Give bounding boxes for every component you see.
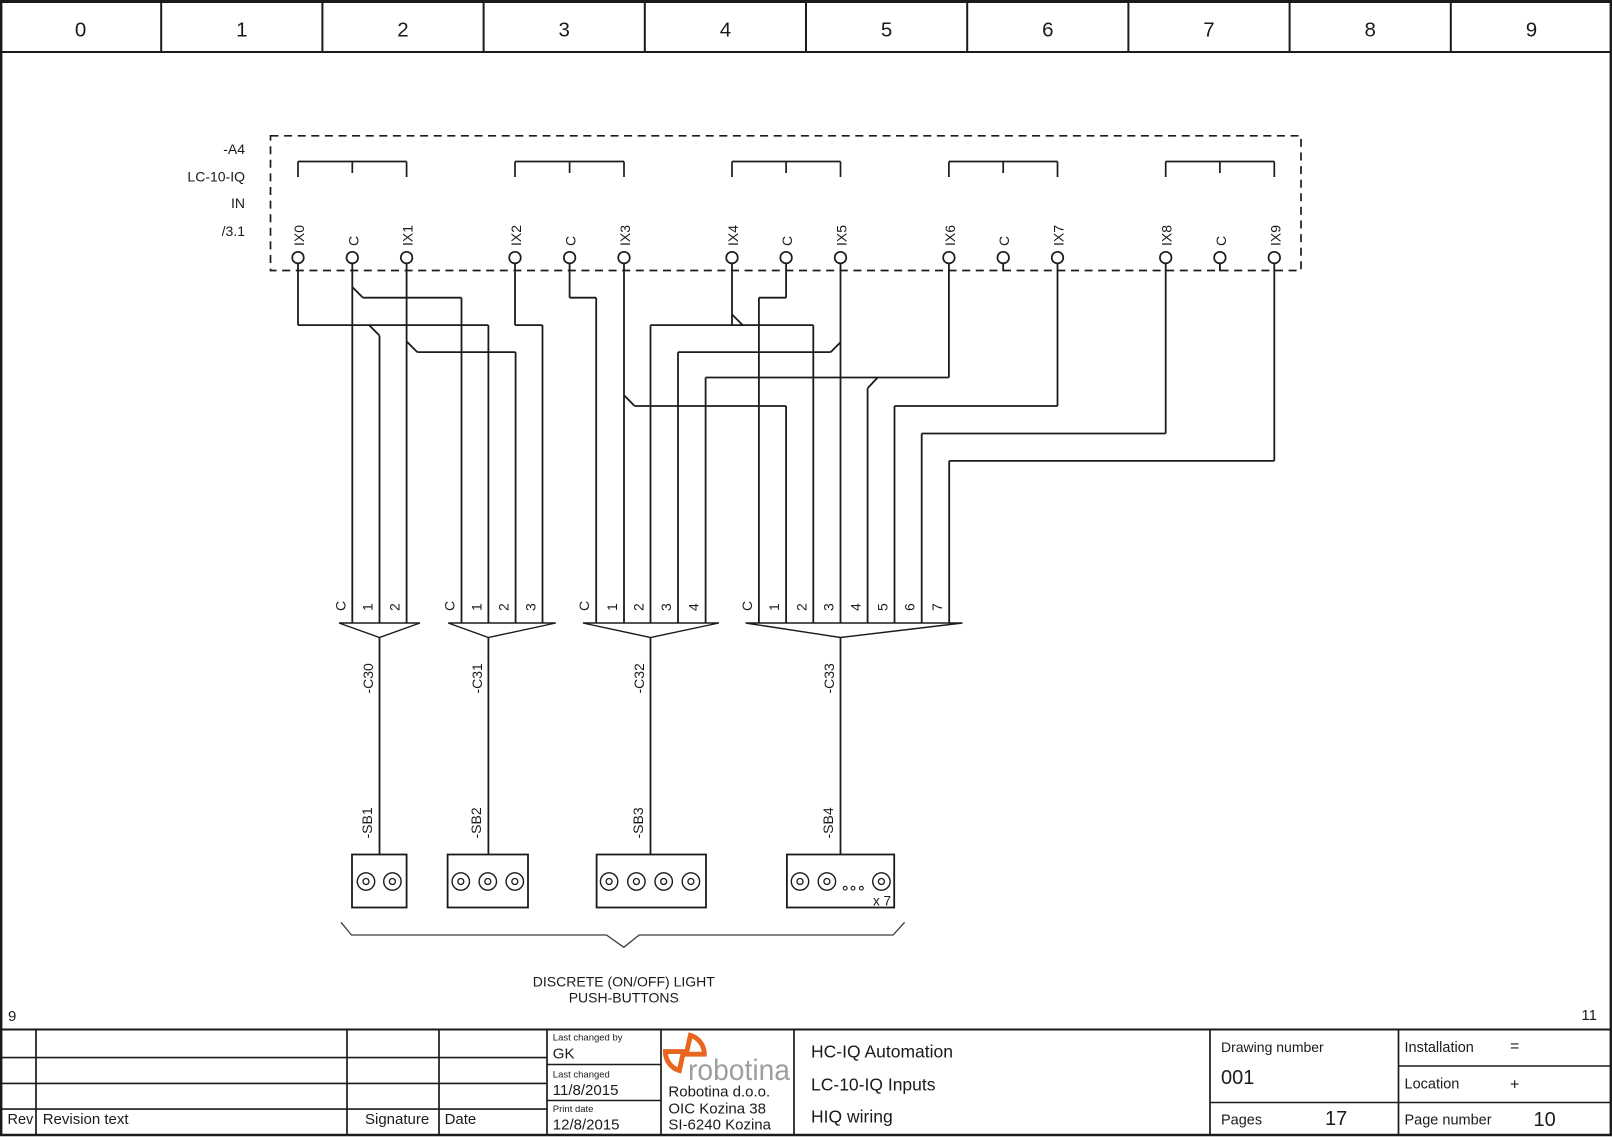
svg-text:9: 9 [8,1008,16,1025]
svg-text:-C30: -C30 [360,663,376,694]
svg-text:7: 7 [1203,19,1214,42]
svg-text:-SB2: -SB2 [468,807,484,838]
svg-text:1: 1 [360,603,376,611]
svg-text:6: 6 [1042,19,1053,42]
svg-text:LC-10-IQ Inputs: LC-10-IQ Inputs [811,1075,936,1095]
svg-text:HIQ wiring: HIQ wiring [811,1107,893,1127]
svg-text:5: 5 [881,19,892,42]
svg-text:3: 3 [658,603,674,611]
svg-text:Rev: Rev [8,1112,35,1128]
svg-text:robotina: robotina [688,1054,790,1087]
svg-text:Installation: Installation [1405,1040,1474,1056]
svg-text:IX8: IX8 [1159,225,1175,246]
svg-text:IX7: IX7 [1051,225,1067,246]
svg-text:IX0: IX0 [291,225,307,246]
svg-text:1: 1 [766,603,782,611]
svg-text:IX1: IX1 [400,225,416,246]
svg-text:-SB3: -SB3 [630,807,646,838]
svg-text:LC-10-IQ: LC-10-IQ [187,169,245,185]
svg-text:DISCRETE (ON/OFF) LIGHT: DISCRETE (ON/OFF) LIGHT [533,974,715,990]
svg-text:IX9: IX9 [1267,225,1283,246]
svg-text:=: = [1510,1038,1519,1055]
svg-text:/3.1: /3.1 [222,223,246,239]
svg-text:PUSH-BUTTONS: PUSH-BUTTONS [569,990,679,1006]
svg-text:-SB4: -SB4 [820,807,836,838]
svg-text:7: 7 [929,603,945,611]
svg-text:Pages: Pages [1221,1113,1262,1129]
svg-text:001: 001 [1221,1067,1254,1089]
svg-text:Robotina d.o.o.: Robotina d.o.o. [668,1084,770,1101]
svg-text:8: 8 [1364,19,1375,42]
svg-text:12/8/2015: 12/8/2015 [553,1117,620,1134]
svg-text:C: C [345,236,361,246]
svg-text:C: C [442,601,458,611]
svg-text:1: 1 [236,19,247,42]
svg-text:GK: GK [553,1046,575,1063]
svg-text:Page number: Page number [1405,1113,1492,1129]
svg-text:2: 2 [387,603,403,611]
svg-text:Date: Date [445,1111,477,1128]
svg-text:4: 4 [686,603,702,611]
svg-text:C: C [779,236,795,246]
svg-text:OIC Kozina 38: OIC Kozina 38 [668,1101,766,1118]
svg-text:Signature: Signature [365,1111,429,1128]
svg-text:-C31: -C31 [469,663,485,694]
svg-text:3: 3 [558,19,569,42]
svg-text:Drawing number: Drawing number [1221,1039,1324,1055]
svg-text:+: + [1510,1077,1519,1094]
svg-text:Last changed: Last changed [553,1070,610,1081]
svg-text:3: 3 [821,603,837,611]
svg-text:C: C [332,601,348,611]
svg-text:-A4: -A4 [223,141,245,157]
svg-text:2: 2 [496,603,512,611]
svg-text:x 7: x 7 [873,894,891,909]
svg-text:SI-6240 Kozina: SI-6240 Kozina [668,1117,771,1134]
svg-text:Last changed by: Last changed by [553,1033,623,1044]
svg-text:9: 9 [1526,19,1537,42]
svg-text:1: 1 [468,603,484,611]
svg-text:0: 0 [75,19,86,42]
svg-text:17: 17 [1325,1108,1347,1130]
svg-text:IX3: IX3 [617,225,633,246]
svg-text:1: 1 [604,603,620,611]
svg-text:C: C [739,601,755,611]
svg-text:C: C [996,236,1012,246]
svg-text:IX6: IX6 [942,225,958,246]
svg-text:4: 4 [848,603,864,611]
svg-text:2: 2 [397,19,408,42]
svg-text:IN: IN [231,195,245,211]
svg-text:IX5: IX5 [834,225,850,246]
svg-text:11: 11 [1581,1007,1597,1024]
svg-text:C: C [1213,236,1229,246]
svg-text:5: 5 [875,603,891,611]
svg-text:IX4: IX4 [725,225,741,246]
svg-text:10: 10 [1534,1109,1556,1131]
svg-text:Location: Location [1405,1077,1460,1093]
svg-text:2: 2 [793,603,809,611]
svg-text:Revision text: Revision text [43,1111,130,1128]
svg-text:IX2: IX2 [508,225,524,246]
svg-text:C: C [563,236,579,246]
svg-text:4: 4 [720,19,731,42]
svg-text:HC-IQ Automation: HC-IQ Automation [811,1042,953,1062]
svg-text:-C33: -C33 [821,663,837,694]
svg-text:6: 6 [902,603,918,611]
svg-text:3: 3 [523,603,539,611]
svg-text:11/8/2015: 11/8/2015 [553,1082,619,1099]
svg-text:C: C [576,601,592,611]
svg-text:-C32: -C32 [631,663,647,694]
svg-text:2: 2 [631,603,647,611]
svg-text:-SB1: -SB1 [359,807,375,838]
svg-text:Print date: Print date [553,1104,594,1115]
